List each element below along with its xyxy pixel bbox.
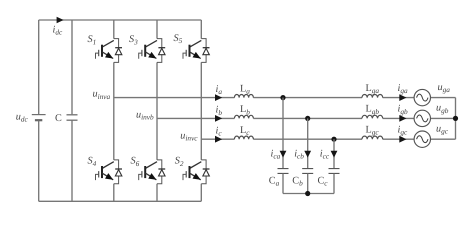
wire: phase a line bbox=[114, 97, 456, 99]
current arrow i_gb bbox=[398, 104, 408, 122]
inductor L_gc bbox=[362, 124, 383, 139]
svg-text:igb: igb bbox=[398, 104, 408, 116]
wire: top DC bus bbox=[39, 19, 202, 21]
svg-text:igc: igc bbox=[398, 124, 408, 136]
wire: leg b vertical bbox=[156, 20, 158, 201]
AC source u_ga bbox=[414, 82, 450, 106]
inductor L_ga bbox=[362, 83, 383, 98]
svg-text:uga: uga bbox=[438, 82, 451, 94]
AC source u_gc bbox=[414, 124, 449, 148]
AC source u_gb bbox=[414, 103, 449, 127]
transistor S1 bbox=[88, 34, 123, 62]
svg-text:icb: icb bbox=[294, 149, 304, 161]
svg-text:ib: ib bbox=[216, 105, 223, 117]
DC source u_dc bbox=[16, 20, 46, 201]
wire: leg a vertical bbox=[113, 20, 115, 201]
wire: leg c vertical bbox=[200, 20, 202, 201]
inductor L_b bbox=[234, 104, 253, 118]
svg-text:C: C bbox=[55, 113, 62, 124]
svg-text:uinvc: uinvc bbox=[180, 130, 198, 142]
svg-text:Lb: Lb bbox=[240, 104, 250, 116]
wire: phase b line bbox=[157, 117, 456, 119]
capacitor C_c branch bbox=[318, 139, 340, 193]
svg-text:uinva: uinva bbox=[93, 89, 111, 101]
current arrow i_b bbox=[215, 105, 222, 122]
svg-text:icc: icc bbox=[320, 149, 330, 161]
svg-text:S5: S5 bbox=[174, 33, 183, 45]
wire: bottom DC bus bbox=[39, 200, 202, 202]
svg-text:ugb: ugb bbox=[436, 103, 449, 115]
current arrow i_gc bbox=[398, 124, 408, 142]
svg-text:S1: S1 bbox=[88, 34, 97, 46]
svg-text:ica: ica bbox=[271, 149, 281, 161]
current arrow i_a bbox=[215, 84, 222, 101]
svg-text:La: La bbox=[240, 83, 250, 95]
node B junction dot bbox=[305, 116, 310, 121]
wire: grid neutral bus bbox=[455, 98, 457, 140]
svg-text:uinvb: uinvb bbox=[136, 110, 154, 122]
transistor S4 bbox=[88, 156, 123, 184]
wire: capacitor neutral bus bbox=[283, 193, 334, 195]
current arrow i_dc bbox=[53, 17, 64, 37]
svg-text:Cc: Cc bbox=[318, 175, 329, 187]
svg-text:Cb: Cb bbox=[292, 175, 303, 187]
svg-text:ic: ic bbox=[216, 125, 223, 137]
svg-text:Ca: Ca bbox=[269, 175, 280, 187]
node C junction dot bbox=[331, 137, 336, 142]
svg-text:iga: iga bbox=[398, 83, 408, 95]
current arrow i_ga bbox=[398, 83, 408, 101]
svg-text:Lc: Lc bbox=[240, 125, 250, 137]
transistor S5 bbox=[174, 33, 210, 63]
svg-text:S6: S6 bbox=[131, 156, 140, 168]
svg-text:S3: S3 bbox=[129, 34, 138, 46]
svg-text:ia: ia bbox=[216, 84, 223, 96]
inductor L_gb bbox=[362, 104, 383, 119]
svg-text:Lga: Lga bbox=[366, 83, 380, 95]
svg-text:Lgb: Lgb bbox=[366, 104, 380, 116]
inductor L_a bbox=[234, 83, 253, 97]
current arrow i_c bbox=[215, 125, 222, 142]
capacitor C_a branch bbox=[269, 98, 289, 194]
svg-text:S4: S4 bbox=[88, 156, 97, 168]
transistor S3 bbox=[129, 34, 165, 62]
svg-text:Lgc: Lgc bbox=[366, 124, 380, 136]
transistor S2 bbox=[175, 156, 210, 184]
node grid neutral dot bbox=[453, 116, 458, 121]
transistor S6 bbox=[131, 156, 166, 184]
svg-text:S2: S2 bbox=[175, 156, 184, 168]
inductor L_c bbox=[234, 125, 253, 139]
wire: phase c line bbox=[201, 138, 455, 140]
node A junction dot bbox=[280, 95, 285, 100]
svg-text:ugc: ugc bbox=[436, 124, 449, 136]
capacitor C_b branch bbox=[292, 118, 313, 193]
svg-text:idc: idc bbox=[53, 25, 63, 37]
capacitor C (DC link) bbox=[55, 20, 78, 201]
svg-text:udc: udc bbox=[16, 112, 29, 124]
node capacitor neutral dot bbox=[305, 191, 310, 196]
